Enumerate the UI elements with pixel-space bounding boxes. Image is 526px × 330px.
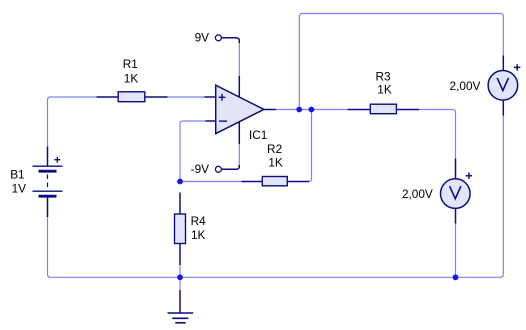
- svg-text:1K: 1K: [377, 83, 392, 97]
- svg-text:R2: R2: [267, 142, 282, 156]
- svg-text:9V: 9V: [195, 31, 210, 45]
- svg-text:R1: R1: [123, 57, 138, 71]
- svg-text:-9V: -9V: [191, 162, 209, 176]
- svg-text:1K: 1K: [268, 156, 283, 170]
- svg-text:R4: R4: [191, 214, 207, 228]
- svg-text:R3: R3: [375, 69, 391, 83]
- svg-text:2,00V: 2,00V: [402, 187, 433, 201]
- svg-text:2,00V: 2,00V: [450, 79, 481, 93]
- svg-text:B1: B1: [10, 167, 24, 181]
- svg-text:IC1: IC1: [249, 128, 267, 142]
- svg-text:1K: 1K: [191, 228, 206, 242]
- svg-text:1K: 1K: [124, 71, 139, 85]
- svg-text:1V: 1V: [12, 182, 27, 196]
